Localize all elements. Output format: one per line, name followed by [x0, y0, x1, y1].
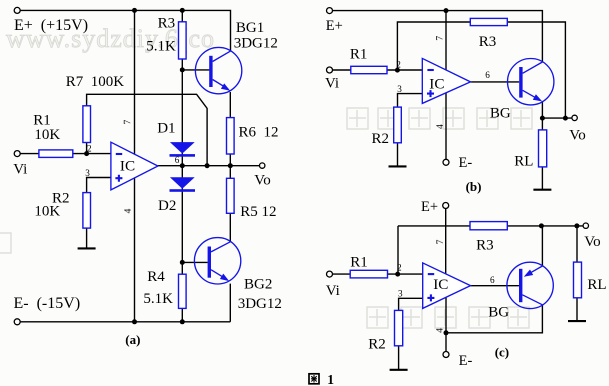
ground bar RL b [533, 189, 551, 191]
resistor R3 b [470, 18, 507, 25]
ground bar R2 [78, 247, 96, 249]
svg-text:10K: 10K [34, 204, 60, 220]
op-amp U3 minus [428, 273, 434, 275]
junction dot rail x134 [132, 8, 137, 13]
svg-text:R1: R1 [33, 112, 51, 128]
svg-text:2: 2 [396, 59, 401, 69]
svg-text:R3: R3 [479, 34, 497, 50]
op-amp U1 triangle [111, 142, 158, 190]
wire BG2 base [182, 261, 207, 263]
wire pin3 R2 c [399, 298, 423, 370]
junction dot output R6 node [228, 163, 233, 168]
svg-text:(b): (b) [466, 179, 482, 194]
svg-text:4: 4 [436, 328, 446, 333]
svg-text:6: 6 [490, 275, 495, 285]
svg-text:BG2: BG2 [244, 277, 272, 293]
wire RL column c [576, 226, 578, 321]
wire E+ rail b to collector [332, 11, 542, 62]
wire feedback R7 to output node [87, 94, 208, 165]
diode D1 [170, 142, 196, 157]
svg-text:R1: R1 [350, 46, 368, 62]
svg-text:5.1K: 5.1K [146, 38, 176, 54]
wire output line to Vo [158, 165, 259, 167]
wire output pin6 c [471, 285, 520, 287]
watermark row3 blocks [367, 307, 529, 328]
svg-text:R2: R2 [372, 131, 390, 147]
ground bar R2 b [389, 165, 407, 167]
junction dot pin2 node [84, 151, 89, 156]
caption glyph tu [309, 374, 319, 384]
resistor R2 c [395, 310, 403, 345]
terminal Vi [14, 151, 20, 157]
svg-text:E+: E+ [326, 18, 343, 34]
transistor BG c [507, 262, 553, 308]
resistor R7 [83, 106, 91, 143]
watermark row2 blocks [347, 108, 532, 129]
svg-text:1: 1 [327, 372, 334, 386]
wire BG1 base [182, 69, 209, 71]
svg-text:D2: D2 [158, 198, 176, 214]
terminal E+ c [443, 203, 449, 209]
wire R3 branch to D1 anode [181, 10, 183, 142]
wire E+ rail to BG1 collector [20, 10, 231, 51]
wire R5 collector column [229, 166, 231, 242]
svg-text:4: 4 [436, 124, 446, 129]
svg-text:3DG12: 3DG12 [238, 296, 282, 312]
terminal E+ b [327, 8, 333, 14]
terminal Vo [260, 163, 265, 168]
svg-text:7: 7 [436, 239, 446, 244]
svg-text:R3: R3 [476, 238, 494, 254]
junction dot output feedback node [205, 163, 210, 168]
svg-text:2: 2 [397, 263, 402, 273]
svg-text:Vi: Vi [326, 283, 340, 299]
junction dot BG1 base [180, 67, 185, 72]
wire V+ supply column pin7 [134, 10, 136, 154]
wire pin4 b to E- [445, 92, 447, 159]
op-amp U1 minus [116, 153, 122, 155]
svg-text:10K: 10K [34, 127, 60, 143]
wire R6 emitter column [229, 92, 231, 166]
resistor R3 [179, 22, 187, 59]
wire output pin6 b [471, 81, 520, 83]
ground bar R2 c [390, 369, 408, 371]
wire pin3 R2 b [398, 94, 423, 167]
junction dot output diode node [180, 163, 185, 168]
svg-text:E+: E+ [421, 199, 438, 215]
svg-text:7: 7 [123, 120, 133, 125]
wire pin7 b [445, 11, 447, 70]
svg-text:RL: RL [514, 154, 533, 170]
svg-text:3: 3 [397, 84, 402, 94]
svg-text:3: 3 [85, 168, 90, 178]
wire emitter top c [541, 226, 543, 266]
svg-text:BG: BG [488, 305, 509, 321]
transistor BG b [508, 58, 554, 104]
junction dot pin2 b [395, 68, 400, 73]
svg-text:IC: IC [120, 158, 135, 175]
junction dot RL c [574, 223, 579, 228]
wire emitter to output node b [541, 101, 543, 130]
wire output line Vo b [542, 117, 571, 119]
wire Vi input c [332, 273, 422, 275]
ground bar RL c [568, 320, 586, 322]
svg-text:Vo: Vo [569, 128, 585, 144]
transistor BG1 [195, 47, 241, 93]
junction dot bottom rail x182 [180, 319, 185, 324]
svg-text:7: 7 [436, 36, 446, 41]
svg-text:R6 12: R6 12 [239, 125, 279, 141]
junction dot bottom rail x134 [132, 319, 137, 324]
terminal E- [14, 319, 20, 325]
svg-text:IC: IC [433, 276, 448, 293]
wire E- bottom rail [20, 321, 231, 323]
svg-text:3DG12: 3DG12 [234, 36, 278, 52]
op-amp U3 plus [427, 294, 434, 301]
terminal Vo c [583, 223, 588, 228]
svg-text:D1: D1 [157, 120, 175, 136]
watermark left partial block [0, 233, 11, 253]
wire diode chain to BG2 base node [181, 142, 183, 262]
svg-text:3: 3 [398, 289, 403, 299]
terminal E- b [443, 159, 449, 165]
svg-text:6: 6 [485, 70, 490, 80]
resistor R1 b [351, 66, 387, 73]
svg-text:R4: R4 [147, 269, 165, 285]
junction dot BG2 base [180, 260, 185, 265]
svg-text:6: 6 [175, 155, 180, 165]
junction dot emitter c [539, 223, 544, 228]
svg-text:(c): (c) [495, 345, 509, 360]
wire pin3 to R2 and ground [87, 178, 111, 249]
junction dot rail x182 [180, 8, 185, 13]
diode D2 [170, 177, 196, 192]
junction dot rail b [444, 8, 449, 13]
svg-text:BG: BG [490, 106, 511, 122]
wire R4 to bottom rail [181, 262, 183, 321]
resistor R3 c [470, 222, 507, 230]
svg-text:Vo: Vo [584, 234, 600, 250]
svg-text:BG1: BG1 [236, 20, 264, 36]
junction dot emitter node b [540, 116, 545, 121]
svg-text:E-: E- [459, 155, 473, 171]
svg-text:E+ (+15V): E+ (+15V) [14, 17, 88, 34]
resistor R2 [83, 193, 91, 229]
wire BG2 emitter to bottom rail [229, 284, 231, 322]
wire feedback R3 b [397, 22, 565, 118]
resistor R1 [39, 150, 73, 158]
junction dot feedback node b [563, 116, 568, 121]
terminal E+ [14, 7, 20, 13]
wire Vi input [20, 153, 111, 155]
wire V- supply column pin4 [134, 178, 136, 322]
op-amp U2 plus [427, 90, 434, 97]
svg-text:R3: R3 [158, 16, 176, 32]
resistor R4 [179, 274, 187, 308]
wire Vi input b [332, 69, 422, 71]
terminal Vo b [572, 115, 577, 120]
op-amp U3 triangle [423, 263, 471, 309]
op-amp U1 plus [115, 175, 122, 182]
svg-text:RL: RL [587, 277, 606, 293]
svg-text:(a): (a) [125, 332, 140, 347]
svg-text:E-: E- [459, 353, 473, 369]
wire E+ drop c [445, 208, 447, 275]
svg-text:R2: R2 [368, 337, 386, 353]
resistor R1 c [350, 270, 387, 278]
svg-text:R5 12: R5 12 [240, 204, 276, 220]
svg-text:Vo: Vo [254, 172, 270, 188]
resistor RL c [574, 262, 582, 298]
svg-text:5.1K: 5.1K [143, 291, 173, 307]
resistor R2 b [394, 107, 402, 143]
wire pin4 to E- and collector link c [446, 297, 542, 352]
op-amp U2 triangle [422, 58, 470, 103]
wire top line c [398, 225, 583, 227]
wire RL bottom b [541, 167, 543, 190]
resistor R5 [227, 178, 235, 213]
resistor RL b [539, 130, 547, 167]
svg-text:Vi: Vi [13, 161, 27, 177]
terminal E- c [443, 352, 449, 358]
resistor R6 [227, 118, 235, 154]
terminal Vi b [327, 67, 333, 73]
junction dot pin2 c [395, 272, 400, 277]
op-amp U2 minus [427, 69, 433, 71]
wire feedback vertical c [397, 226, 399, 274]
svg-text:IC: IC [429, 75, 444, 92]
svg-text:R1: R1 [350, 254, 368, 270]
transistor BG2 [194, 238, 240, 284]
svg-text:E- (-15V): E- (-15V) [14, 295, 81, 312]
terminal Vi c [327, 271, 333, 277]
svg-text:4: 4 [124, 208, 134, 213]
svg-text:Vi: Vi [325, 76, 339, 92]
svg-text:R7 100K: R7 100K [66, 74, 125, 90]
junction dot pin4 c [444, 330, 449, 335]
svg-text:2: 2 [87, 143, 92, 153]
